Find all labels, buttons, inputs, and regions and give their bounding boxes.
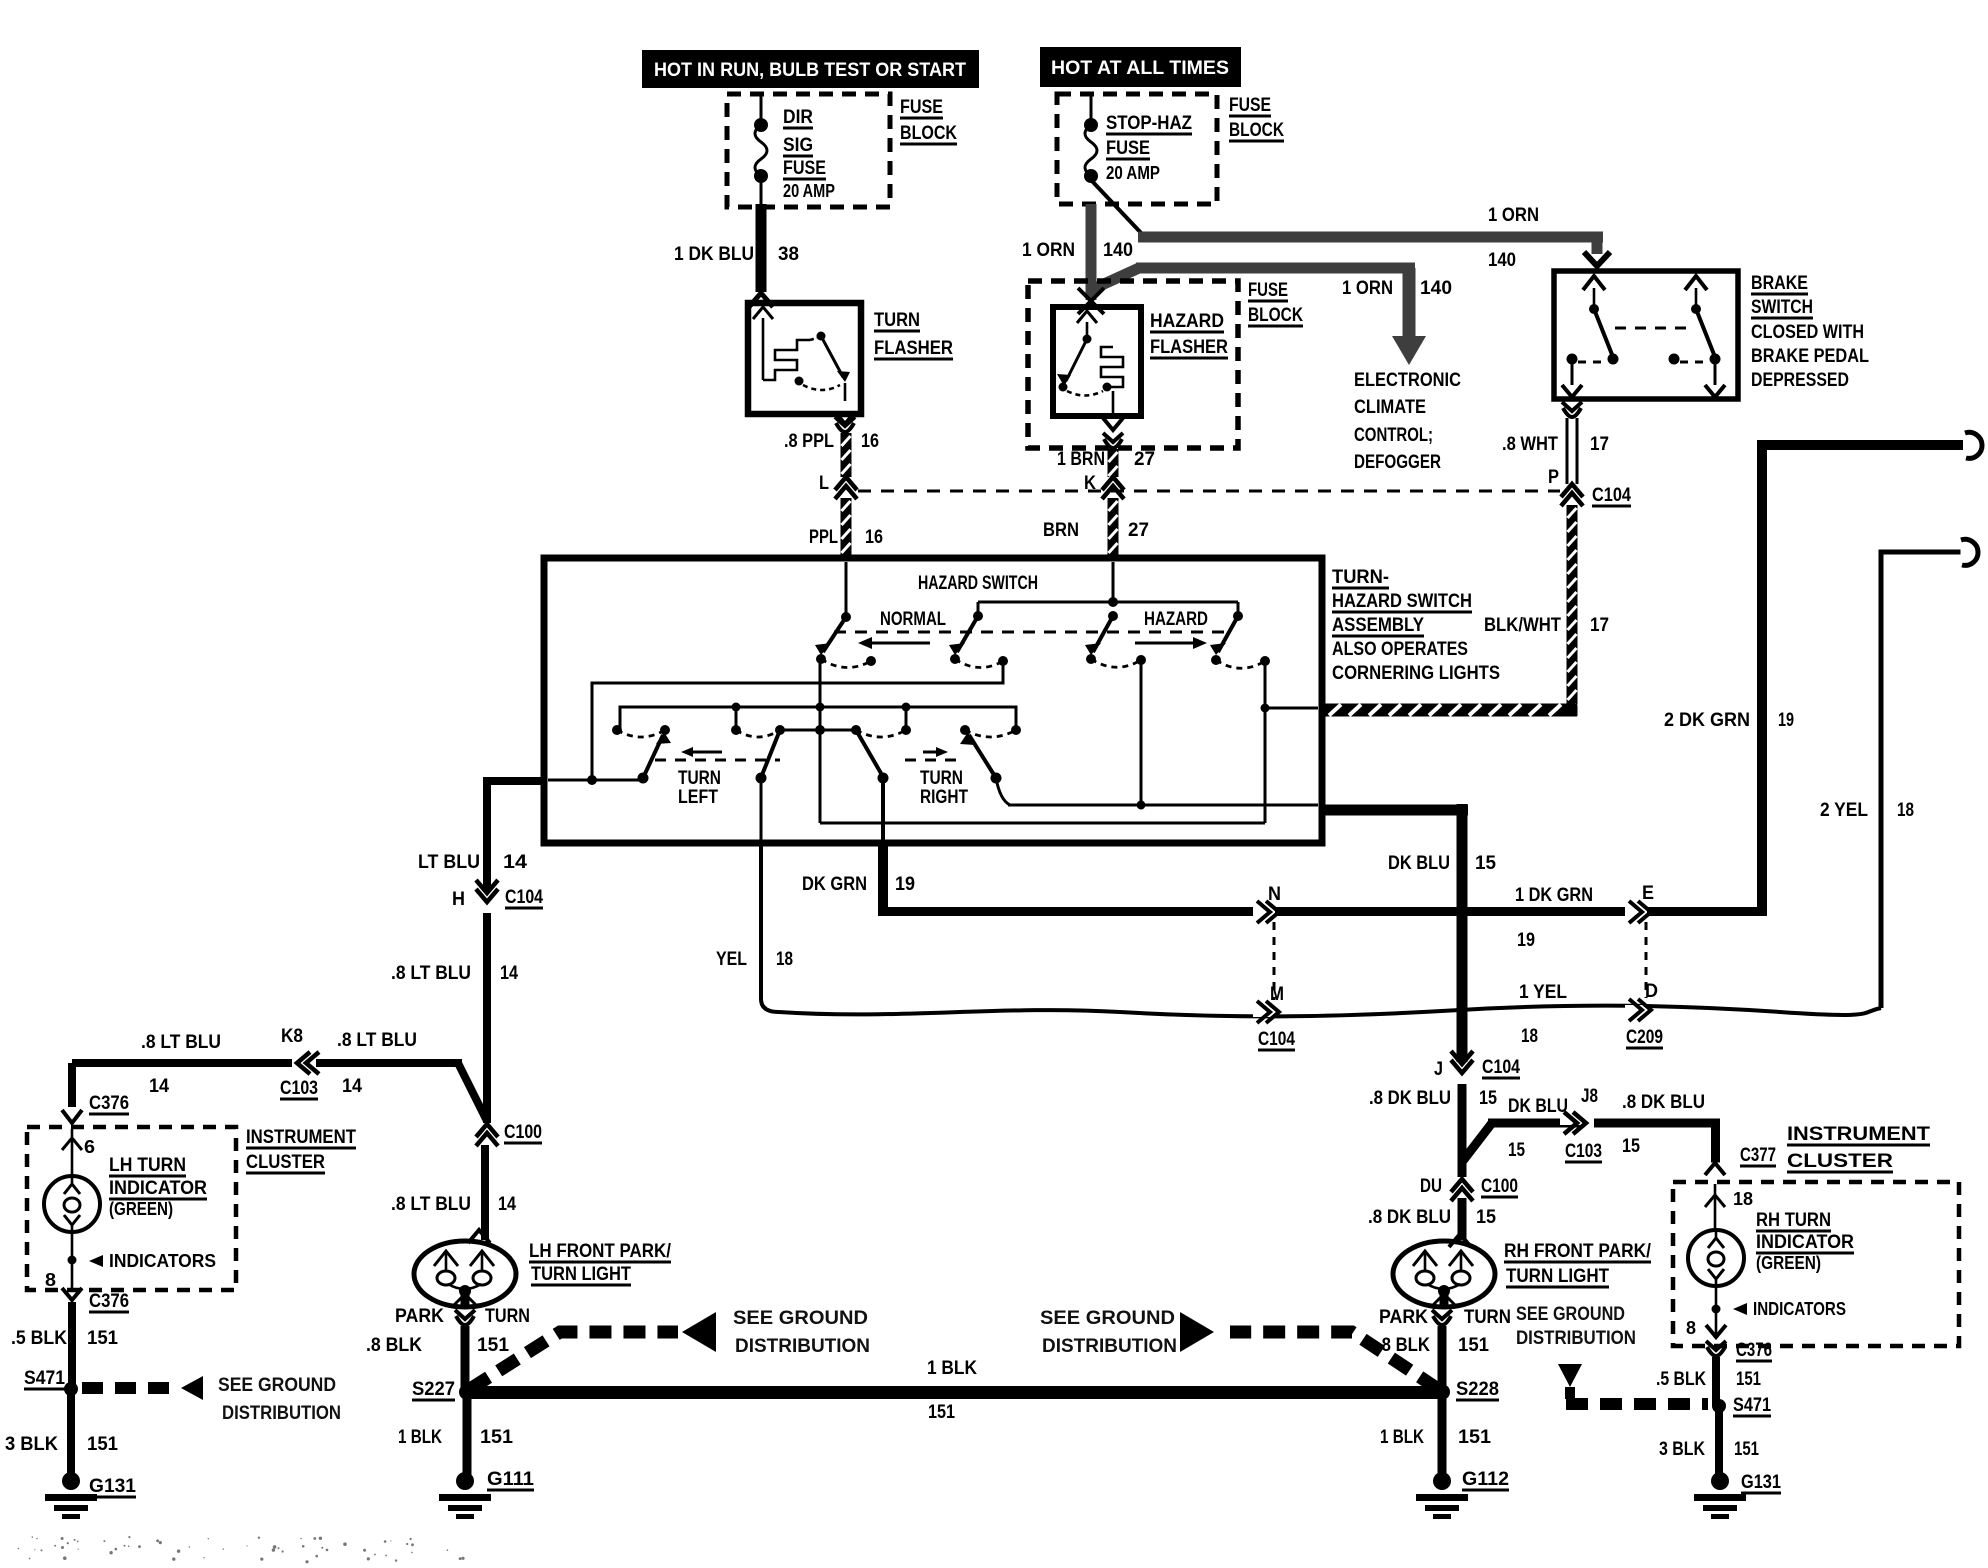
svg-text:ELECTRONIC: ELECTRONIC bbox=[1354, 370, 1461, 391]
svg-text:2 DK GRN: 2 DK GRN bbox=[1664, 710, 1750, 731]
svg-text:16: 16 bbox=[865, 527, 883, 548]
svg-text:C100: C100 bbox=[504, 1122, 542, 1143]
svg-text:LEFT: LEFT bbox=[678, 787, 718, 808]
svg-text:151: 151 bbox=[1458, 1335, 1489, 1356]
svg-text:NORMAL: NORMAL bbox=[880, 609, 946, 630]
svg-text:DISTRIBUTION: DISTRIBUTION bbox=[735, 1336, 870, 1357]
svg-text:INDICATORS: INDICATORS bbox=[109, 1251, 216, 1271]
svg-text:15: 15 bbox=[1475, 853, 1496, 874]
svg-text:BRAKE PEDAL: BRAKE PEDAL bbox=[1751, 346, 1869, 367]
svg-text:HAZARD: HAZARD bbox=[1150, 311, 1224, 332]
svg-text:BRN: BRN bbox=[1043, 520, 1079, 541]
svg-text:19: 19 bbox=[1517, 930, 1535, 951]
svg-text:.8 DK BLU: .8 DK BLU bbox=[1622, 1092, 1705, 1113]
svg-text:DK BLU: DK BLU bbox=[1388, 853, 1450, 874]
svg-text:HAZARD SWITCH: HAZARD SWITCH bbox=[918, 573, 1038, 594]
svg-text:1 DK GRN: 1 DK GRN bbox=[1515, 885, 1593, 906]
svg-text:151: 151 bbox=[1736, 1369, 1761, 1390]
svg-text:C376: C376 bbox=[1736, 1340, 1772, 1361]
svg-text:20 AMP: 20 AMP bbox=[783, 181, 835, 201]
svg-text:C104: C104 bbox=[1592, 485, 1631, 506]
svg-text:G111: G111 bbox=[487, 1469, 534, 1490]
svg-text:151: 151 bbox=[928, 1402, 955, 1423]
svg-text:.8 LT BLU: .8 LT BLU bbox=[141, 1032, 221, 1053]
svg-text:.8 PPL: .8 PPL bbox=[784, 431, 834, 452]
svg-text:INDICATORS: INDICATORS bbox=[1753, 1299, 1846, 1319]
svg-text:TURN: TURN bbox=[874, 310, 920, 331]
svg-text:FUSE: FUSE bbox=[1229, 95, 1271, 116]
svg-text:L: L bbox=[819, 473, 829, 494]
svg-text:18: 18 bbox=[1733, 1189, 1753, 1209]
svg-text:FLASHER: FLASHER bbox=[1150, 337, 1228, 358]
svg-text:PPL: PPL bbox=[809, 527, 838, 548]
svg-text:C377: C377 bbox=[1740, 1145, 1776, 1166]
svg-text:SEE GROUND: SEE GROUND bbox=[1516, 1304, 1625, 1325]
svg-text:18: 18 bbox=[1521, 1026, 1538, 1047]
svg-text:1 BLK: 1 BLK bbox=[1380, 1427, 1424, 1448]
svg-text:RH TURN: RH TURN bbox=[1756, 1210, 1831, 1231]
svg-text:CONTROL;: CONTROL; bbox=[1354, 425, 1433, 446]
svg-text:18: 18 bbox=[776, 949, 793, 970]
svg-text:BLOCK: BLOCK bbox=[1229, 120, 1284, 141]
svg-text:TURN: TURN bbox=[485, 1306, 530, 1327]
svg-text:TURN: TURN bbox=[920, 768, 963, 789]
svg-text:1 BRN: 1 BRN bbox=[1057, 449, 1105, 470]
svg-text:.8 BLK: .8 BLK bbox=[366, 1335, 422, 1356]
svg-text:CLUSTER: CLUSTER bbox=[246, 1152, 325, 1173]
svg-text:FUSE: FUSE bbox=[783, 158, 826, 179]
svg-text:C100: C100 bbox=[1481, 1176, 1518, 1197]
svg-text:HOT IN RUN, BULB TEST OR START: HOT IN RUN, BULB TEST OR START bbox=[654, 59, 966, 81]
svg-text:TURN: TURN bbox=[678, 768, 721, 789]
svg-text:LH FRONT PARK/: LH FRONT PARK/ bbox=[529, 1241, 672, 1262]
svg-text:14: 14 bbox=[149, 1076, 169, 1097]
svg-text:1 BLK: 1 BLK bbox=[927, 1358, 977, 1379]
svg-text:.8 DK BLU: .8 DK BLU bbox=[1368, 1207, 1451, 1228]
svg-text:INDICATOR: INDICATOR bbox=[109, 1178, 207, 1199]
svg-text:ASSEMBLY: ASSEMBLY bbox=[1332, 615, 1424, 636]
svg-text:.8 LT BLU: .8 LT BLU bbox=[391, 963, 471, 984]
svg-text:G131: G131 bbox=[1741, 1472, 1781, 1493]
svg-text:15: 15 bbox=[1476, 1207, 1496, 1228]
svg-text:(GREEN): (GREEN) bbox=[1756, 1253, 1821, 1273]
svg-text:BRAKE: BRAKE bbox=[1751, 273, 1808, 294]
svg-text:DEPRESSED: DEPRESSED bbox=[1751, 370, 1849, 391]
svg-text:PARK: PARK bbox=[395, 1306, 444, 1327]
svg-text:C103: C103 bbox=[280, 1078, 318, 1099]
svg-text:RIGHT: RIGHT bbox=[920, 787, 968, 808]
svg-text:151: 151 bbox=[87, 1328, 118, 1349]
svg-text:ALSO OPERATES: ALSO OPERATES bbox=[1332, 639, 1468, 660]
svg-text:G131: G131 bbox=[89, 1476, 136, 1497]
svg-text:C376: C376 bbox=[89, 1093, 129, 1114]
svg-text:H: H bbox=[452, 889, 465, 910]
svg-text:17: 17 bbox=[1590, 615, 1609, 636]
svg-text:DU: DU bbox=[1420, 1176, 1442, 1197]
svg-text:FUSE: FUSE bbox=[900, 97, 943, 118]
svg-text:P: P bbox=[1548, 467, 1559, 488]
svg-text:INDICATOR: INDICATOR bbox=[1756, 1232, 1854, 1253]
svg-text:6: 6 bbox=[84, 1137, 95, 1157]
svg-text:3 BLK: 3 BLK bbox=[5, 1434, 58, 1455]
svg-text:PARK: PARK bbox=[1379, 1307, 1428, 1328]
svg-text:K8: K8 bbox=[281, 1026, 303, 1047]
svg-text:1 ORN: 1 ORN bbox=[1022, 240, 1075, 261]
svg-text:C103: C103 bbox=[1565, 1141, 1602, 1162]
svg-text:C209: C209 bbox=[1626, 1027, 1663, 1048]
svg-text:TURN LIGHT: TURN LIGHT bbox=[1506, 1266, 1609, 1287]
svg-text:2 YEL: 2 YEL bbox=[1820, 800, 1868, 821]
svg-text:YEL: YEL bbox=[716, 949, 747, 970]
svg-text:.5 BLK: .5 BLK bbox=[1656, 1369, 1706, 1390]
svg-text:SEE GROUND: SEE GROUND bbox=[218, 1375, 336, 1396]
svg-text:14: 14 bbox=[342, 1076, 362, 1097]
svg-text:16: 16 bbox=[861, 431, 879, 452]
svg-text:TURN-: TURN- bbox=[1332, 567, 1389, 588]
svg-text:140: 140 bbox=[1488, 250, 1516, 271]
svg-text:151: 151 bbox=[87, 1434, 118, 1455]
svg-text:3 BLK: 3 BLK bbox=[1659, 1439, 1705, 1460]
svg-text:DEFOGGER: DEFOGGER bbox=[1354, 452, 1441, 473]
svg-text:BLK/WHT: BLK/WHT bbox=[1484, 615, 1561, 636]
svg-text:27: 27 bbox=[1128, 520, 1149, 541]
svg-text:15: 15 bbox=[1508, 1140, 1525, 1161]
svg-text:S471: S471 bbox=[24, 1368, 65, 1389]
svg-text:RH FRONT PARK/: RH FRONT PARK/ bbox=[1504, 1241, 1652, 1262]
svg-text:TURN: TURN bbox=[1464, 1307, 1511, 1328]
svg-text:CLOSED WITH: CLOSED WITH bbox=[1751, 322, 1864, 343]
svg-text:SEE GROUND: SEE GROUND bbox=[1040, 1308, 1175, 1329]
svg-text:LH TURN: LH TURN bbox=[109, 1155, 186, 1176]
svg-text:N: N bbox=[1268, 884, 1281, 905]
svg-text:CORNERING LIGHTS: CORNERING LIGHTS bbox=[1332, 663, 1500, 684]
svg-text:.8 DK BLU: .8 DK BLU bbox=[1369, 1088, 1451, 1109]
svg-text:INSTRUMENT: INSTRUMENT bbox=[246, 1127, 356, 1148]
svg-text:CLIMATE: CLIMATE bbox=[1354, 397, 1426, 418]
svg-text:HAZARD SWITCH: HAZARD SWITCH bbox=[1332, 591, 1472, 612]
svg-text:1 ORN: 1 ORN bbox=[1488, 205, 1539, 226]
svg-text:15: 15 bbox=[1479, 1088, 1497, 1109]
svg-text:140: 140 bbox=[1420, 278, 1452, 299]
svg-text:20 AMP: 20 AMP bbox=[1106, 163, 1160, 183]
svg-text:15: 15 bbox=[1622, 1136, 1640, 1157]
svg-text:38: 38 bbox=[778, 244, 799, 265]
svg-text:DK GRN: DK GRN bbox=[802, 874, 867, 895]
svg-text:DISTRIBUTION: DISTRIBUTION bbox=[1042, 1336, 1177, 1357]
svg-text:140: 140 bbox=[1103, 240, 1133, 261]
svg-text:19: 19 bbox=[895, 874, 915, 895]
svg-text:FLASHER: FLASHER bbox=[874, 338, 953, 359]
svg-text:DISTRIBUTION: DISTRIBUTION bbox=[1516, 1328, 1636, 1349]
svg-text:18: 18 bbox=[1897, 800, 1914, 821]
svg-text:17: 17 bbox=[1590, 434, 1609, 455]
svg-text:SIG: SIG bbox=[783, 135, 813, 156]
svg-text:(GREEN): (GREEN) bbox=[109, 1199, 173, 1219]
svg-text:S471: S471 bbox=[1733, 1395, 1771, 1416]
svg-text:HAZARD: HAZARD bbox=[1144, 609, 1208, 630]
svg-text:151: 151 bbox=[480, 1427, 513, 1448]
svg-text:INSTRUMENT: INSTRUMENT bbox=[1787, 1124, 1930, 1145]
svg-text:C376: C376 bbox=[89, 1291, 129, 1312]
svg-text:1 ORN: 1 ORN bbox=[1342, 278, 1393, 299]
svg-text:FUSE: FUSE bbox=[1106, 138, 1150, 159]
svg-text:S228: S228 bbox=[1456, 1379, 1499, 1400]
svg-text:27: 27 bbox=[1134, 449, 1155, 470]
svg-text:J: J bbox=[1434, 1059, 1443, 1080]
svg-text:1 BLK: 1 BLK bbox=[398, 1427, 442, 1448]
svg-text:FUSE: FUSE bbox=[1248, 280, 1288, 301]
svg-text:8: 8 bbox=[45, 1270, 56, 1290]
svg-text:CLUSTER: CLUSTER bbox=[1787, 1151, 1893, 1172]
svg-text:STOP-HAZ: STOP-HAZ bbox=[1106, 113, 1192, 134]
svg-text:1 YEL: 1 YEL bbox=[1519, 982, 1567, 1003]
svg-text:C104: C104 bbox=[1482, 1057, 1520, 1078]
svg-text:.8 BLK: .8 BLK bbox=[1377, 1335, 1430, 1356]
svg-text:M: M bbox=[1270, 984, 1284, 1005]
svg-text:SEE GROUND: SEE GROUND bbox=[733, 1308, 868, 1329]
svg-text:C104: C104 bbox=[1258, 1029, 1295, 1050]
svg-text:DIR: DIR bbox=[783, 107, 813, 128]
svg-text:BLOCK: BLOCK bbox=[1248, 305, 1303, 326]
svg-text:LT BLU: LT BLU bbox=[418, 852, 480, 873]
svg-text:.8 LT BLU: .8 LT BLU bbox=[337, 1030, 417, 1051]
svg-text:151: 151 bbox=[1458, 1427, 1491, 1448]
svg-text:.5 BLK: .5 BLK bbox=[11, 1328, 67, 1349]
svg-text:SWITCH: SWITCH bbox=[1751, 297, 1813, 318]
svg-text:TURN LIGHT: TURN LIGHT bbox=[531, 1264, 631, 1285]
svg-text:HOT AT ALL TIMES: HOT AT ALL TIMES bbox=[1051, 57, 1229, 79]
svg-text:E: E bbox=[1642, 883, 1654, 904]
svg-text:J8: J8 bbox=[1581, 1086, 1598, 1107]
svg-text:S227: S227 bbox=[412, 1379, 455, 1400]
svg-text:BLOCK: BLOCK bbox=[900, 123, 957, 144]
svg-text:14: 14 bbox=[500, 963, 518, 984]
svg-text:14: 14 bbox=[503, 852, 527, 873]
svg-text:8: 8 bbox=[1686, 1318, 1696, 1338]
svg-text:19: 19 bbox=[1778, 710, 1794, 731]
svg-text:14: 14 bbox=[498, 1194, 516, 1215]
svg-text:C104: C104 bbox=[505, 887, 543, 908]
svg-text:.8 WHT: .8 WHT bbox=[1502, 434, 1558, 455]
svg-text:DISTRIBUTION: DISTRIBUTION bbox=[222, 1403, 341, 1424]
svg-text:151: 151 bbox=[1734, 1439, 1759, 1460]
svg-text:.8 LT BLU: .8 LT BLU bbox=[391, 1194, 471, 1215]
svg-text:151: 151 bbox=[477, 1335, 509, 1356]
svg-text:1 DK BLU: 1 DK BLU bbox=[674, 244, 754, 265]
svg-text:G112: G112 bbox=[1462, 1469, 1509, 1490]
svg-text:DK BLU: DK BLU bbox=[1508, 1096, 1568, 1117]
